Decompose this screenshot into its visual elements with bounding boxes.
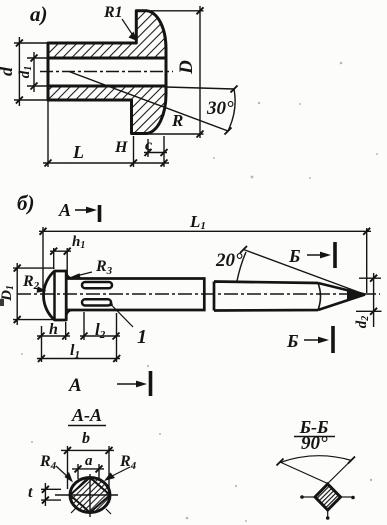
centerline fig b xyxy=(17,293,380,295)
head-shank fillets xyxy=(66,273,72,317)
dimension d2 xyxy=(359,277,381,279)
radius R leader line xyxy=(69,72,228,132)
dimension ticks fig a xyxy=(16,7,238,166)
dimension L1 xyxy=(42,227,44,292)
slot 2 xyxy=(82,299,111,305)
leader 1 xyxy=(109,303,113,307)
section A-A ellipse xyxy=(70,478,110,513)
centerline ticks B-B xyxy=(301,496,316,498)
dimension d xyxy=(14,42,48,44)
dimension d1 xyxy=(27,57,48,59)
scan speck xyxy=(0,299,4,306)
shank left piece xyxy=(66,279,204,311)
nail head (fig b) xyxy=(44,271,67,320)
30 deg arc xyxy=(228,89,235,131)
dimension ticks fig b xyxy=(14,228,377,362)
R1 leader xyxy=(122,19,134,37)
dimension D1 xyxy=(13,267,55,269)
bottom dimensions L H c (fig a) xyxy=(47,100,49,167)
dimension t xyxy=(41,488,61,490)
90 deg rays xyxy=(280,462,328,484)
centerlines A-A xyxy=(55,494,118,496)
20 deg ray xyxy=(244,250,366,295)
dimension h1 xyxy=(53,248,55,269)
dimensions h l2 l1 xyxy=(41,326,43,362)
dimension a xyxy=(77,464,79,479)
shank right piece with point xyxy=(214,282,365,311)
diamond inside A-A xyxy=(70,478,110,513)
dimension b xyxy=(67,446,69,489)
centerline fig a xyxy=(40,71,173,73)
rivet body section (fig a) xyxy=(48,11,166,134)
cone base arc xyxy=(318,283,321,310)
ticks A-A xyxy=(42,447,113,504)
slot 1 xyxy=(82,282,112,288)
dimension D xyxy=(147,10,204,12)
diamond B-B xyxy=(315,484,341,510)
30 deg upper ray xyxy=(166,87,234,89)
